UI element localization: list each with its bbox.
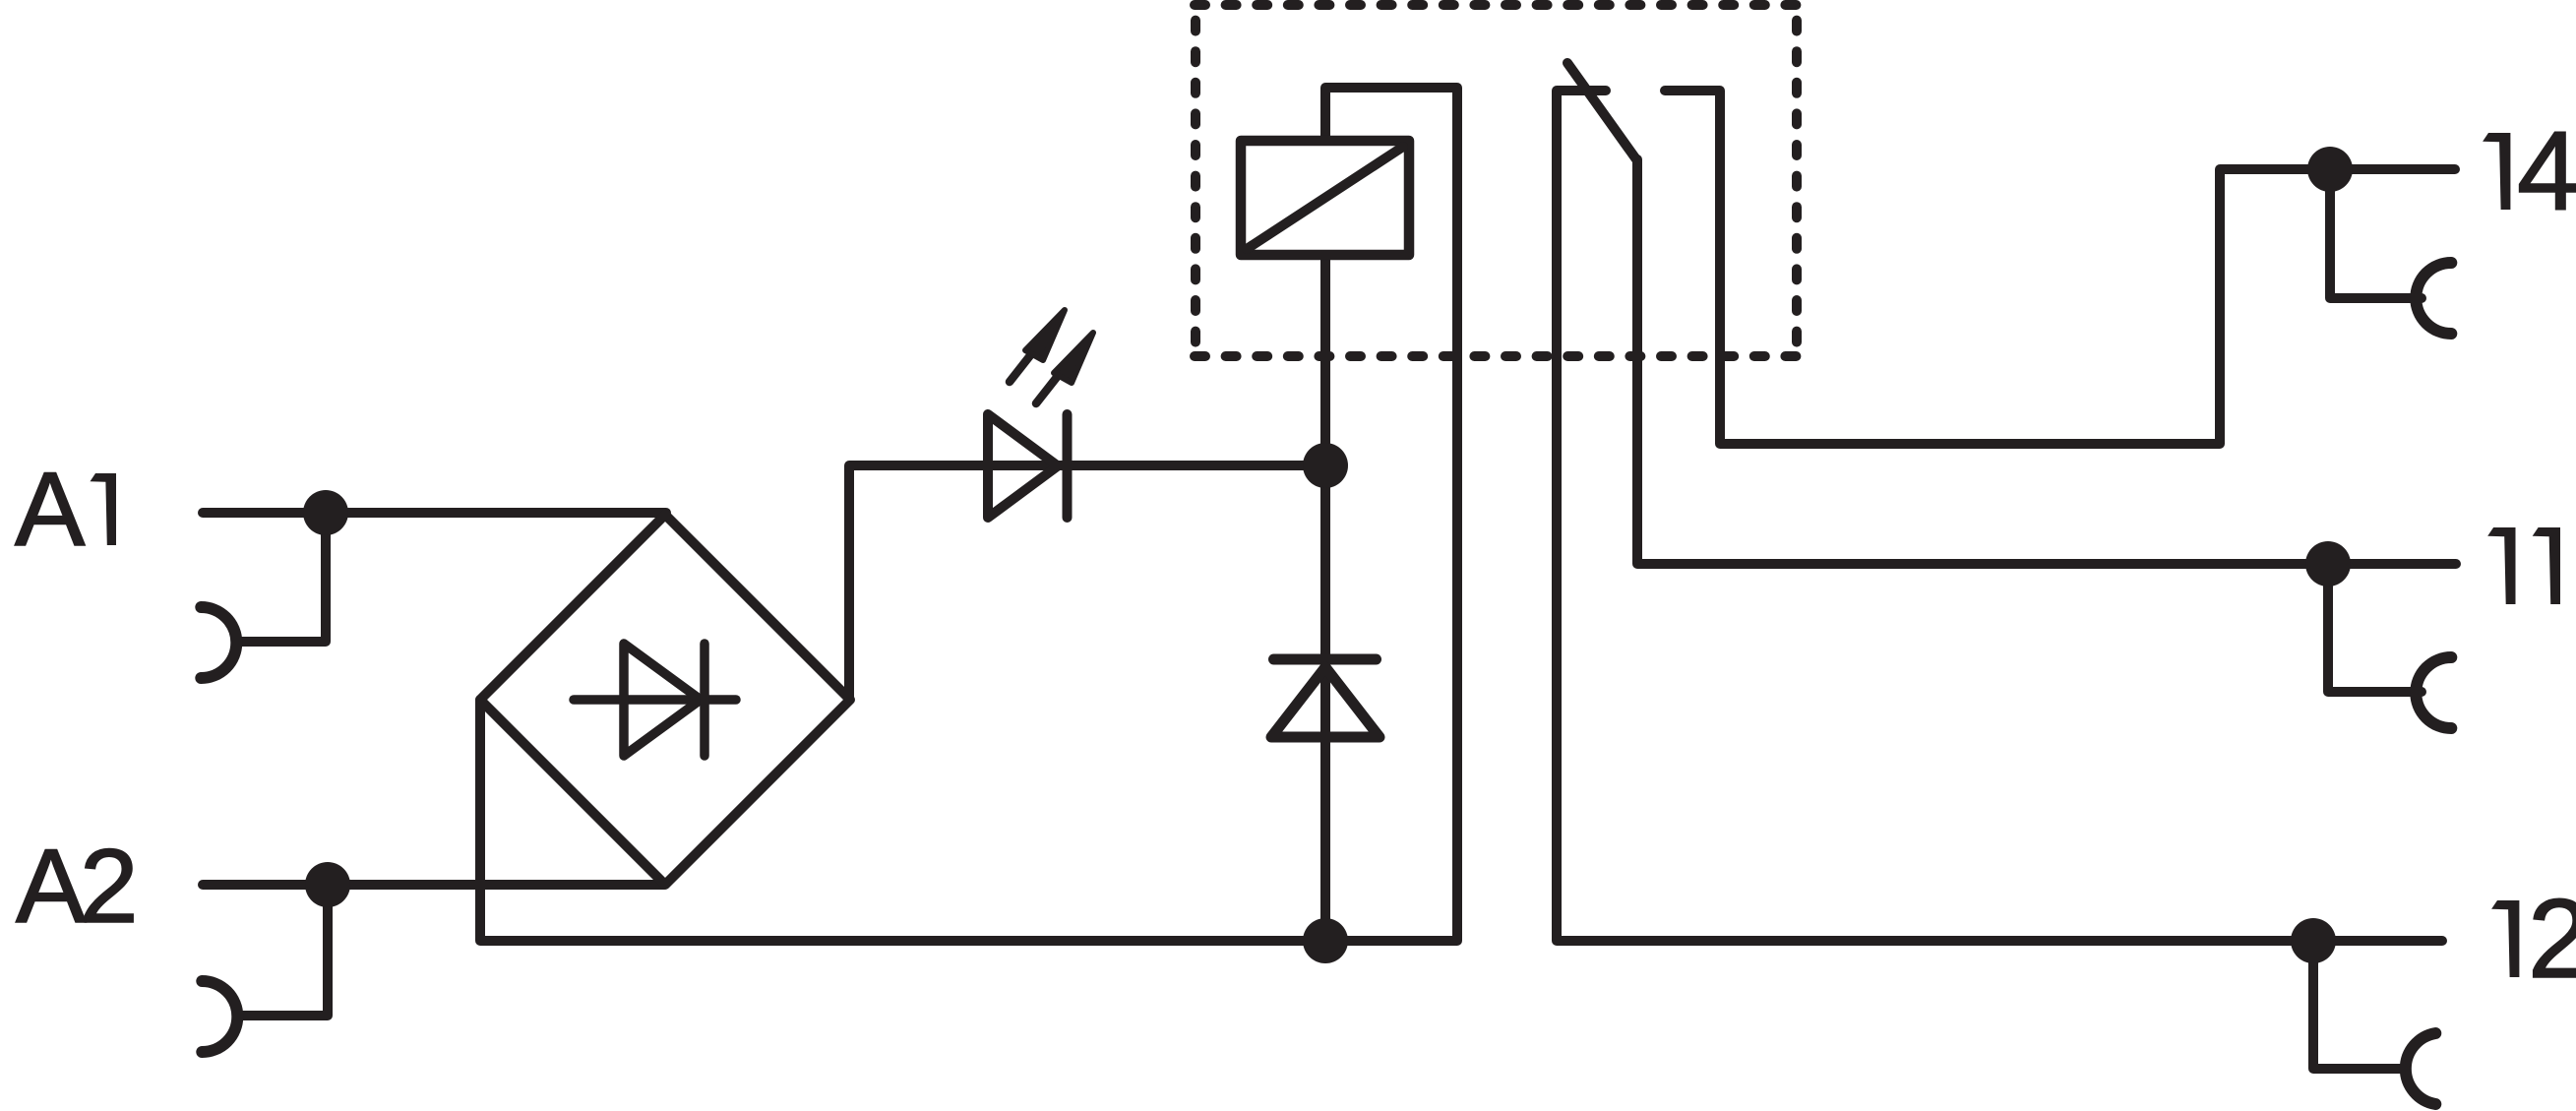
wire 11 clamp tap (2328, 564, 2422, 692)
wire A1 terminal to bridge top vertex (203, 508, 666, 518)
junction node terminal 14 (2307, 147, 2353, 192)
svg-text:2: 2 (2528, 877, 2576, 1002)
junction node LED/coil/diode (1303, 443, 1348, 488)
junction node terminal 12 (2291, 918, 2336, 963)
wire 12 clamp tap (2313, 941, 2405, 1069)
label 11 (2487, 527, 2515, 604)
svg-text:4: 4 (2517, 109, 2576, 234)
junction node terminal 11 (2305, 541, 2351, 586)
wire 14 clamp tap (2330, 169, 2422, 298)
clamp contact 14 (2416, 263, 2451, 334)
relay contact common leg and wire to terminal 11 (1637, 159, 2456, 564)
LED D1 triangle (988, 414, 1058, 518)
junction node A2 (305, 862, 350, 907)
svg-text:2: 2 (80, 827, 139, 945)
label 12 (2491, 900, 2519, 977)
wire bridge minus rail to coil return (480, 88, 1457, 941)
relay contact NC leg and wire to terminal 12 (1557, 91, 2442, 941)
LED arrow 2 (1036, 333, 1093, 403)
svg-text:A: A (16, 827, 87, 945)
svg-text:A: A (15, 450, 86, 568)
label 14 (2483, 133, 2510, 210)
freewheeling diode D2 triangle (1271, 667, 1380, 737)
clamp contact A1 (201, 607, 236, 678)
junction node bottom rail (1303, 918, 1348, 963)
clamp contact 12 (2406, 1033, 2435, 1104)
relay coil K1 wire bottom pin to junction (1320, 255, 1330, 470)
wire bridge plus up to LED level (849, 465, 1325, 700)
clamp contact A2 (202, 981, 237, 1052)
dashed relay enclosure box (1195, 5, 1797, 356)
wire A2 clamp tap (237, 885, 328, 1016)
LED arrow 1 (1010, 310, 1065, 382)
relay coil K1 box (1241, 141, 1409, 255)
junction node A1 (303, 490, 348, 535)
LED D1 cathode bar (1063, 414, 1073, 518)
bridge inner diode triangle (624, 644, 701, 756)
bridge inner diode cathode bar (700, 644, 709, 756)
relay contact blade (1567, 63, 1636, 159)
relay contact NO leg and wire to terminal 14 (1665, 91, 2455, 444)
bridge rectifier B1 diamond (480, 515, 850, 885)
freewheeling diode D2 wire (1320, 465, 1330, 941)
bridge inner diode wire (574, 695, 736, 705)
clamp contact 11 (2416, 657, 2451, 728)
wire A1 clamp tap (236, 513, 326, 642)
wire A2 terminal to bridge bottom vertex (203, 880, 664, 890)
freewheeling diode D2 cathode bar (1274, 654, 1377, 665)
relay coil K1 diagonal (1247, 147, 1403, 249)
